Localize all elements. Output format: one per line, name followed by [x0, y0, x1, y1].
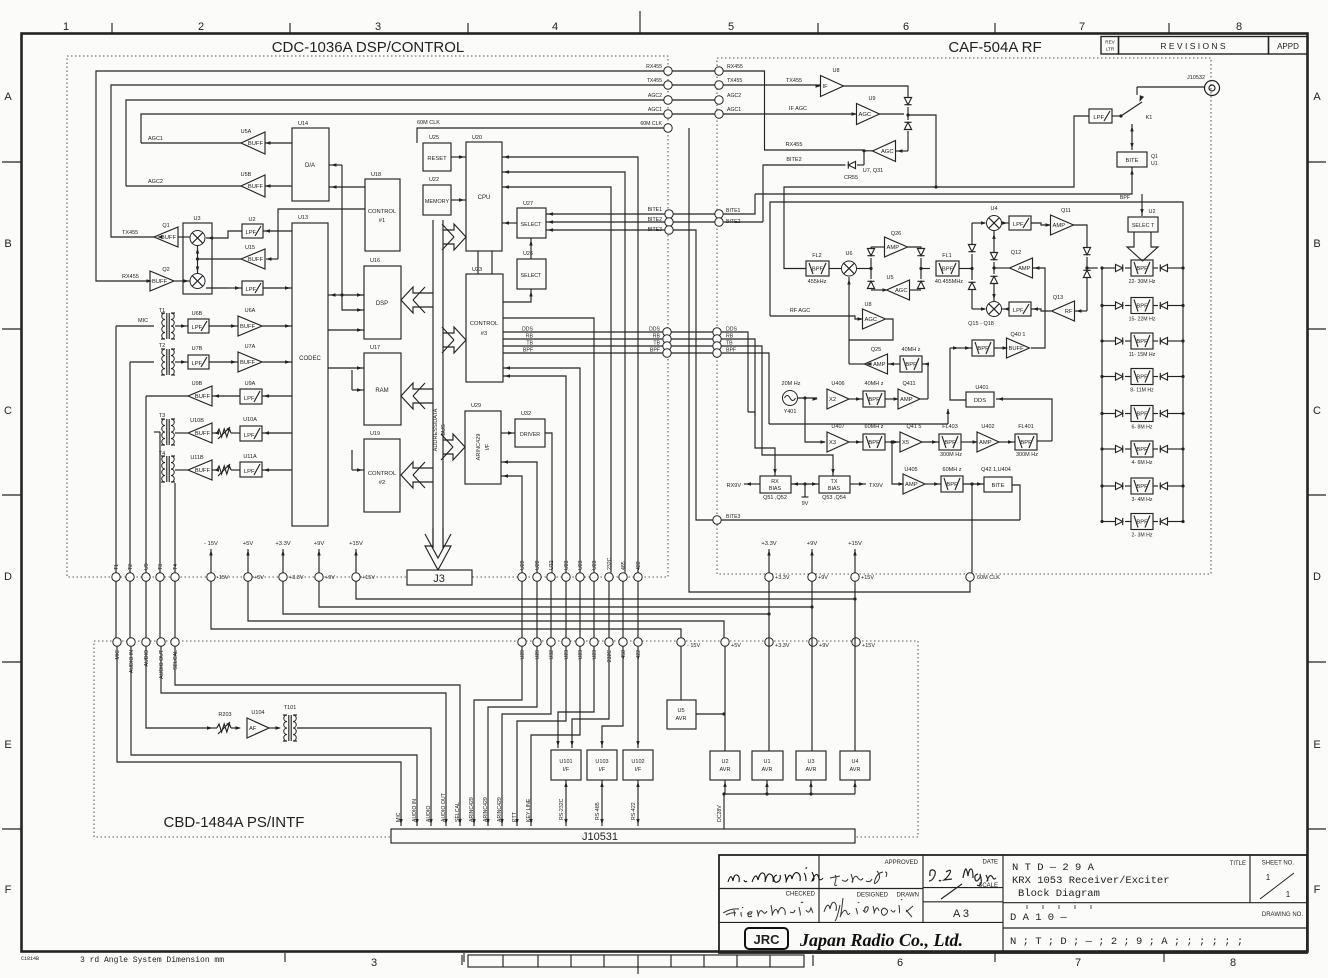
diode right 3- 4M Hz [1153, 485, 1158, 487]
wire U9 out [879, 113, 904, 115]
power node +3.3V CBD [765, 638, 773, 646]
zone ticks left [2, 161, 21, 163]
wire BPF40 in [922, 364, 928, 399]
svg-text:- 15V: - 15V [687, 643, 700, 649]
svg-text:60M CLK: 60M CLK [417, 120, 440, 126]
svg-text:AGC: AGC [865, 317, 878, 323]
wire RF loop y202 [770, 202, 1183, 316]
svg-text:Q26: Q26 [891, 231, 901, 237]
svg-text:BITE: BITE [1126, 158, 1139, 164]
svg-text:422: 422 [636, 650, 642, 659]
svg-text:+9V: +9V [807, 541, 818, 547]
svg-text:AGC2: AGC2 [727, 93, 741, 99]
wire RF loop y194 [723, 194, 755, 214]
svg-text:AMP: AMP [900, 397, 913, 403]
svg-text:J3: J3 [433, 573, 445, 585]
node U29 row2 [518, 638, 526, 646]
svg-text:#1: #1 [379, 218, 385, 224]
svg-text:Q13: Q13 [1053, 295, 1063, 301]
diode quad in bottom [867, 281, 874, 288]
diode left 3- 4M Hz [1102, 485, 1115, 487]
wire Q1 to mixer [178, 236, 190, 238]
diode CR55 [863, 151, 865, 165]
wire AUDIO IN route [131, 646, 417, 826]
interface U103 [587, 750, 617, 780]
svg-text:BUFF: BUFF [195, 394, 211, 400]
svg-text:1: 1 [1266, 873, 1271, 882]
node U23 row2 [590, 638, 598, 646]
svg-text:- 15V: - 15V [204, 541, 218, 547]
wire BPF into RF [721, 353, 769, 424]
date 02 May [929, 869, 996, 886]
svg-text:AUDIO OUT: AUDIO OUT [159, 649, 165, 679]
node T1 row1 [112, 573, 120, 581]
avr U3 [796, 751, 826, 780]
svg-text:455kHz: 455kHz [808, 279, 827, 285]
wire T1 column [116, 325, 154, 327]
bus arrow to CONTROL2 [401, 462, 433, 488]
svg-text:CBD-1484A PS/INTF: CBD-1484A PS/INTF [164, 814, 305, 831]
svg-text:422: 422 [636, 561, 642, 570]
varistor U11 [217, 466, 231, 474]
wire U103 in [602, 646, 623, 748]
svg-text:F: F [1314, 884, 1321, 896]
svg-text:U104: U104 [251, 710, 264, 716]
interface U102 [623, 750, 653, 780]
node MIC CBD [113, 638, 121, 646]
node 60M CLK CDC border [664, 124, 672, 132]
wire control1 bus drop [341, 165, 343, 295]
svg-text:AGC2: AGC2 [648, 93, 662, 99]
wire +5V to U2 AVR [724, 646, 726, 751]
wire BITE2 to CR55 [723, 221, 763, 223]
svg-text:BUFF: BUFF [161, 235, 177, 241]
bus arrow select T to BPF bank [1127, 232, 1158, 261]
wire antenna path [908, 115, 936, 187]
svg-text:U27: U27 [523, 201, 533, 207]
node T4 row1 [171, 573, 179, 581]
svg-text:AGC: AGC [881, 149, 894, 155]
svg-text:CHECKED: CHECKED [786, 892, 816, 898]
svg-text:D: D [1313, 571, 1321, 583]
svg-text:D/A: D/A [305, 163, 315, 169]
wire SELCAL route [175, 646, 460, 826]
svg-text:6- 8M Hz: 6- 8M Hz [1131, 425, 1152, 431]
wire DC28V bus [724, 793, 855, 795]
svg-text:DRAWING NO.: DRAWING NO. [1262, 912, 1303, 918]
svg-text:I/F: I/F [599, 767, 606, 773]
node T2 row1 [126, 573, 134, 581]
svg-text:60MH z: 60MH z [943, 467, 962, 473]
svg-text:AUDIO OUT: AUDIO OUT [441, 792, 447, 822]
diode right 6- 8M Hz [1153, 413, 1158, 415]
node BPF CDC [663, 349, 671, 357]
svg-text:+15V: +15V [861, 575, 874, 581]
svg-text:U3: U3 [807, 759, 814, 765]
svg-text:E: E [4, 739, 11, 751]
svg-text:DATE: DATE [982, 860, 998, 866]
wire U9 column [145, 396, 147, 573]
svg-text:X2: X2 [829, 397, 836, 403]
wire U4 to LPF [1002, 222, 1009, 224]
svg-text:RESET: RESET [427, 156, 447, 162]
wire cpu to control3 a [477, 251, 479, 274]
filter BPF 11- 15M Hz [1131, 333, 1153, 349]
svg-text:8- 11M Hz: 8- 11M Hz [1130, 388, 1154, 394]
svg-text:U6B: U6B [192, 311, 203, 317]
svg-text:+9V: +9V [314, 541, 325, 547]
wire PTT route [517, 646, 566, 826]
svg-text:I/F: I/F [635, 767, 642, 773]
wire BPF to BITE [963, 483, 984, 485]
svg-text:15- 22M Hz: 15- 22M Hz [1129, 317, 1156, 323]
svg-text:232C: 232C [607, 557, 613, 570]
svg-text:Q51 ,Q52: Q51 ,Q52 [763, 495, 787, 501]
svg-text:BPF: BPF [944, 440, 956, 446]
wire KEY LINE route [531, 646, 580, 826]
svg-text:U10B: U10B [190, 418, 204, 424]
wire bpf long to dds [769, 423, 948, 425]
svg-text:U4: U4 [990, 206, 997, 212]
filter BPF 4- 6M Hz [1131, 441, 1153, 457]
bus arrow to ARINC429 [443, 434, 465, 460]
svg-text:C: C [4, 405, 12, 417]
svg-text:T4: T4 [173, 564, 179, 570]
svg-text:U4: U4 [851, 759, 858, 765]
diode left 8- 11M Hz [1102, 376, 1115, 378]
filter LPF Q15 [1009, 302, 1031, 316]
svg-text:U18: U18 [371, 172, 381, 178]
diode right 8- 11M Hz [1153, 376, 1158, 378]
zone ticks bottom [284, 953, 286, 962]
svg-text:U101: U101 [559, 759, 572, 765]
wire ARINC429 b route [488, 646, 537, 826]
filter BPF dds out [972, 340, 994, 356]
svg-text:CAF-504A RF: CAF-504A RF [948, 39, 1041, 56]
svg-text:BPF: BPF [905, 362, 917, 368]
svg-text:U9: U9 [868, 96, 875, 102]
node BPF RF [713, 349, 721, 357]
svg-text:U29: U29 [471, 403, 481, 409]
node U32 row2 [547, 638, 555, 646]
svg-text:U9: U9 [144, 563, 150, 570]
svg-text:U7, Q31: U7, Q31 [863, 168, 883, 174]
svg-text:T2: T2 [159, 343, 165, 349]
wire select U27 to cpu [502, 222, 517, 224]
wire U8 out [843, 86, 908, 97]
filter LPF lower mixer [242, 281, 263, 295]
svg-text:U5: U5 [886, 275, 893, 281]
svg-text:4- 6M Hz: 4- 6M Hz [1131, 460, 1152, 466]
svg-text:U1: U1 [763, 759, 770, 765]
svg-text:MIC: MIC [138, 318, 148, 324]
dashed module border CDC-1036A [67, 56, 668, 577]
svg-text:DESIGNED: DESIGNED [857, 893, 889, 899]
signature M Shinoki [824, 898, 913, 921]
svg-text:U29: U29 [520, 560, 526, 570]
avr U2 [710, 751, 740, 780]
wire U23 column c [503, 318, 594, 573]
svg-text:U9B: U9B [192, 381, 203, 387]
bus arrow to DSP [401, 287, 433, 313]
svg-text:RB: RB [526, 334, 534, 340]
svg-text:3: 3 [375, 21, 381, 33]
svg-text:AVR: AVR [676, 716, 687, 722]
svg-text:I/F: I/F [563, 767, 570, 773]
wire BPF bank left rail [1101, 268, 1103, 522]
varistor U10 [217, 429, 231, 437]
svg-text:AGC2: AGC2 [148, 179, 163, 185]
filter BPF 22- 30M Hz [1131, 260, 1153, 276]
svg-text:BPF: BPF [868, 397, 880, 403]
node TX455 RF border [715, 81, 723, 89]
wire U29 column a [501, 476, 522, 573]
svg-text:U14: U14 [298, 121, 308, 127]
dashed module border CAF-504A [717, 58, 1211, 574]
svg-text:DC28V: DC28V [717, 805, 723, 822]
wire AUDIO OUT route [161, 646, 446, 826]
svg-text:RX455: RX455 [786, 142, 803, 148]
svg-text:A: A [1313, 91, 1321, 103]
wire Q2 to mixer [174, 280, 190, 282]
node SELCAL CBD [171, 638, 179, 646]
svg-text:Japan Radio Co., Ltd.: Japan Radio Co., Ltd. [799, 930, 963, 950]
REVISIONS header [1101, 37, 1119, 55]
node BITE1 RF [715, 210, 723, 218]
node TB RF [713, 342, 721, 350]
svg-text:TB: TB [653, 341, 660, 347]
wire into BPF dds [960, 347, 972, 349]
svg-text:BPF: BPF [1136, 266, 1148, 272]
wire RS-485 [601, 780, 603, 826]
wire select U26 to U27 [530, 238, 532, 259]
svg-text:BUFF: BUFF [248, 141, 264, 147]
node RB RF [713, 335, 721, 343]
logo JRC [745, 928, 788, 949]
svg-text:AUDIO: AUDIO [426, 806, 432, 822]
svg-text:Q2: Q2 [162, 267, 169, 273]
wire T2 row [175, 361, 188, 363]
node U29 row2 [533, 638, 541, 646]
node U29 row1 [518, 573, 526, 581]
svg-text:+3.3V: +3.3V [289, 575, 304, 581]
svg-text:1: 1 [63, 21, 69, 33]
svg-text:458: 458 [621, 650, 627, 659]
wire control2 left [352, 469, 364, 471]
svg-text:U29: U29 [535, 560, 541, 570]
wire 60M CLK distribution [969, 572, 971, 574]
svg-text:N ; T ; D ; — ; 2 ; 9 ; A ;: N ; T ; D ; — ; 2 ; 9 ; A ; ; ; ; ; ; [1010, 936, 1243, 948]
wire signal columns rows link [521, 581, 523, 638]
svg-text:R203: R203 [218, 712, 231, 718]
wire -15V distribution [211, 581, 681, 638]
svg-text:AGC1: AGC1 [148, 136, 163, 142]
wire U11 row [212, 469, 217, 471]
node U9 row1 [142, 573, 150, 581]
dashed module border CBD-1484A [94, 641, 918, 837]
svg-text:U29: U29 [535, 650, 541, 660]
node AUDIO OUT CBD [157, 638, 165, 646]
node T3 row1 [156, 573, 164, 581]
svg-text:BPF: BPF [812, 267, 824, 273]
svg-text:CR55: CR55 [844, 175, 858, 181]
svg-text:BPF: BPF [868, 440, 880, 446]
diode pair antenna b [904, 122, 911, 129]
svg-text:BUFF: BUFF [240, 324, 256, 330]
svg-text:DDS: DDS [974, 398, 986, 404]
svg-text:BITE2: BITE2 [786, 157, 801, 163]
svg-text:2- 3M Hz: 2- 3M Hz [1131, 533, 1152, 539]
diode left 6- 8M Hz [1102, 413, 1115, 415]
svg-text:BPF: BPF [1136, 447, 1148, 453]
power node - 15V CDC [207, 573, 215, 581]
mixer Q15-Q18 [987, 302, 1002, 317]
avr U5 [667, 700, 696, 729]
wire FL401 out [1037, 440, 1052, 442]
node 60M CLK RF [966, 573, 974, 581]
svg-text:Q40 1: Q40 1 [1011, 332, 1026, 338]
wire +15V distribution [356, 581, 855, 599]
svg-text:SHEET NO.: SHEET NO. [1262, 861, 1295, 867]
svg-text:RX455: RX455 [646, 64, 662, 70]
svg-text:U405: U405 [904, 467, 917, 473]
zone ticks right [1308, 161, 1326, 163]
wire bias center 9V [791, 483, 819, 485]
node 422 row2 [634, 638, 642, 646]
svg-text:LPF: LPF [1013, 222, 1024, 228]
svg-text:AUDIO IN: AUDIO IN [129, 650, 135, 673]
svg-text:SELECT: SELECT [521, 222, 543, 228]
wire U6 out [857, 268, 871, 270]
diode pair antenna a [904, 98, 911, 105]
filter LPF antenna [1089, 109, 1112, 123]
svg-text:11- 15M Hz: 11- 15M Hz [1129, 352, 1156, 358]
svg-text:APPROVED: APPROVED [885, 860, 919, 866]
wire T101 out [297, 728, 431, 826]
svg-text:A 3: A 3 [953, 908, 969, 920]
avr U1 [752, 751, 783, 780]
node DDS CDC [663, 328, 671, 336]
svg-text:ADDRESS/DATA: ADDRESS/DATA [433, 408, 439, 451]
svg-text:U32: U32 [521, 411, 531, 417]
svg-text:MIC: MIC [396, 812, 402, 822]
diode bank feed bottom [1083, 270, 1090, 277]
svg-text:CODEC: CODEC [299, 356, 321, 362]
wire ram left [352, 389, 364, 391]
power node +15V CBD [852, 638, 860, 646]
wire +9V distribution [319, 581, 812, 607]
svg-text:BPF: BPF [977, 346, 989, 352]
svg-text:FL403: FL403 [942, 424, 958, 430]
svg-text:RF AGC: RF AGC [790, 308, 811, 314]
svg-text:AUDIO IN: AUDIO IN [412, 799, 418, 822]
svg-text:U2: U2 [1148, 209, 1155, 215]
wire BITE1 to select [546, 213, 665, 215]
svg-text:U29: U29 [520, 650, 526, 660]
rx bias [760, 476, 791, 493]
wire K1 to J10532 [1137, 86, 1205, 88]
svg-text:+15V: +15V [362, 575, 375, 581]
svg-text:U10A: U10A [243, 417, 257, 423]
wire Q11 out [1073, 225, 1087, 247]
wire U5A [141, 142, 241, 144]
bus arrow to J3 [425, 528, 451, 570]
wire IF AGC [723, 113, 856, 115]
node AUDIO CBD [142, 638, 150, 646]
svg-text:Q411: Q411 [902, 381, 915, 387]
svg-text:IF: IF [823, 84, 829, 90]
svg-text:+15V: +15V [848, 541, 862, 547]
svg-text:K1: K1 [1146, 115, 1153, 121]
wire U4 lo drive [993, 231, 995, 252]
wire K1 to BITE [1131, 124, 1133, 150]
wire dds tb to bias [748, 412, 775, 476]
svg-text:AGC: AGC [895, 288, 908, 294]
svg-text:+15V: +15V [862, 643, 875, 649]
mixer U3 upper [190, 231, 205, 246]
wire T3 column [154, 431, 160, 433]
wire U2 AVR feed [724, 780, 726, 794]
svg-text:BPF: BPF [1120, 195, 1130, 201]
wire 232C column [502, 187, 611, 573]
bus arrow to RAM [401, 383, 433, 409]
wire BITE3 to select [546, 229, 665, 231]
wire AGC2 loop [126, 100, 664, 186]
node BITE2 RF [715, 218, 723, 226]
wire to mixer U4 [972, 222, 985, 224]
svg-text:+9V: +9V [325, 575, 335, 581]
svg-text:LPF: LPF [1013, 308, 1024, 314]
diode quad out bottom [917, 281, 924, 288]
svg-text:JRC: JRC [753, 932, 780, 947]
svg-text:U406: U406 [831, 381, 844, 387]
filter BPF 3- 4M Hz [1131, 478, 1153, 494]
svg-text:U1: U1 [1151, 161, 1158, 167]
svg-text:BUFF: BUFF [195, 431, 211, 437]
svg-text:U8: U8 [864, 302, 871, 308]
svg-text:T1: T1 [114, 564, 120, 570]
wire Q12 in [1031, 268, 1045, 348]
svg-text:U25: U25 [429, 135, 439, 141]
wire ARINC429 c route [502, 646, 551, 826]
wire U5B [126, 185, 241, 187]
svg-text:60M CLK: 60M CLK [640, 121, 662, 127]
power node +15V CDC [352, 573, 360, 581]
svg-text:Q42 1,U404: Q42 1,U404 [981, 467, 1011, 473]
svg-text:BPF: BPF [946, 482, 958, 488]
svg-text:APPD: APPD [1277, 42, 1299, 51]
svg-text:FL1: FL1 [942, 253, 951, 259]
wire BITE1 link [673, 213, 715, 215]
node 422 row1 [634, 573, 642, 581]
svg-text:U23: U23 [472, 267, 482, 273]
svg-text:TX455: TX455 [122, 230, 138, 236]
svg-text:E: E [1313, 739, 1320, 751]
wire reset to cpu [451, 156, 466, 158]
svg-text:U9A: U9A [245, 381, 256, 387]
svg-text:J10532: J10532 [1187, 75, 1205, 81]
svg-text:BPF: BPF [942, 267, 954, 273]
avr U4 [840, 751, 870, 780]
node TB CDC [663, 342, 671, 350]
diode bank feed top [1083, 248, 1090, 255]
wire U102 in [637, 646, 639, 748]
node BITE2 CDC [665, 218, 673, 226]
svg-text:J10531: J10531 [582, 831, 618, 843]
wire U9 row [212, 395, 240, 397]
bite block Q1 U1 [1117, 152, 1147, 167]
svg-text:RX455: RX455 [122, 274, 139, 280]
